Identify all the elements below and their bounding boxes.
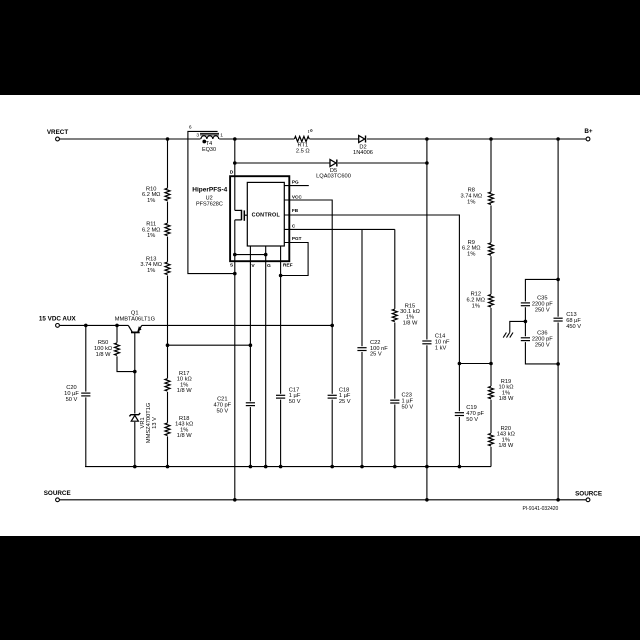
capacitor C18	[328, 394, 337, 396]
transformer T4 core bars	[200, 132, 219, 134]
op-amp U2 outer box	[230, 176, 289, 261]
svg-text:PFS7628C: PFS7628C	[196, 202, 223, 208]
resistor R15	[392, 309, 397, 321]
wire chassis ground stub	[510, 321, 526, 332]
junction dots	[166, 137, 170, 141]
svg-text:1/8 W: 1/8 W	[403, 320, 418, 326]
svg-text:50 V: 50 V	[216, 408, 228, 414]
wire R50 branch	[117, 325, 135, 371]
wire VRECT rail	[60, 138, 295, 140]
resistor R19	[489, 386, 494, 398]
svg-text:CONTROL: CONTROL	[252, 212, 281, 218]
svg-text:1/8 W: 1/8 W	[177, 388, 192, 394]
svg-text:U2: U2	[206, 195, 213, 201]
svg-text:1%: 1%	[467, 199, 475, 205]
svg-text:50 V: 50 V	[402, 405, 414, 411]
capacitor C23	[390, 399, 399, 401]
terminal 15 VDC AUX	[56, 324, 60, 328]
svg-text:EQ30: EQ30	[202, 147, 216, 153]
wire C22 vertical	[361, 229, 363, 466]
svg-text:450 V: 450 V	[566, 324, 581, 330]
wire C pin line	[284, 228, 395, 230]
capacitor C17	[276, 394, 285, 396]
wire V tap	[168, 344, 251, 346]
wire S-G internal tie	[235, 254, 266, 256]
resistor R10	[165, 188, 170, 201]
resistor R20	[489, 433, 494, 445]
svg-text:1/8 W: 1/8 W	[96, 352, 111, 358]
wire D5 branch from drain node	[235, 162, 330, 164]
wire G line	[265, 246, 267, 467]
terminal VRECT	[56, 137, 60, 141]
capacitor C19	[455, 412, 464, 414]
svg-text:G: G	[267, 263, 271, 269]
svg-text:1/8 W: 1/8 W	[177, 433, 192, 439]
wire V line / C21	[249, 246, 251, 467]
resistor R17	[165, 379, 170, 391]
wire mid return rail	[85, 466, 491, 468]
wire D5 cathode to B+ line	[338, 162, 427, 164]
resistor R9	[489, 243, 494, 256]
svg-text:VR1: VR1	[140, 417, 146, 428]
svg-text:D: D	[230, 170, 234, 176]
svg-text:250 V: 250 V	[535, 342, 550, 348]
capacitor C21	[246, 402, 255, 404]
wire R15-C23 vertical	[394, 229, 396, 466]
svg-text:1: 1	[220, 133, 223, 139]
wire FB pin line	[284, 215, 459, 364]
svg-text:25 V: 25 V	[339, 399, 351, 405]
svg-text:PGT: PGT	[292, 236, 302, 241]
wire C19 vertical	[458, 364, 460, 467]
svg-text:HiperPFS-4: HiperPFS-4	[192, 187, 227, 194]
svg-text:PG: PG	[292, 180, 299, 185]
transistor Q1	[128, 325, 132, 332]
svg-text:1%: 1%	[472, 303, 480, 309]
svg-text:VRECT: VRECT	[47, 129, 68, 136]
svg-text:REF: REF	[283, 263, 293, 269]
resistor R8	[489, 192, 494, 205]
svg-text:VCC: VCC	[292, 194, 303, 199]
svg-text:1 kV: 1 kV	[435, 345, 447, 351]
svg-text:6: 6	[189, 124, 192, 130]
U2 inner CONTROL box	[247, 182, 284, 246]
svg-text:1/8 W: 1/8 W	[498, 443, 513, 449]
svg-text:SOURCE: SOURCE	[575, 491, 602, 498]
wire C20 vertical	[85, 325, 87, 466]
svg-text:LQA03TC600: LQA03TC600	[316, 174, 351, 180]
svg-text:1N4006: 1N4006	[353, 150, 373, 156]
svg-text:FB: FB	[292, 208, 299, 213]
transformer T4 winding	[201, 136, 219, 139]
wire drain line D	[234, 139, 236, 210]
wire REF line / C17	[280, 246, 282, 467]
component cutouts	[201, 135, 220, 143]
svg-text:1%: 1%	[467, 252, 475, 258]
wire T4 pin6 down to S	[188, 131, 235, 273]
capacitor C14	[422, 340, 431, 342]
resistor R18	[165, 423, 170, 435]
wire B+ / C14 vertical	[426, 139, 428, 500]
svg-text:25 V: 25 V	[370, 352, 382, 358]
svg-text:1/8 W: 1/8 W	[499, 396, 514, 402]
svg-text:250 V: 250 V	[535, 307, 550, 313]
wire C13 vertical	[557, 139, 559, 500]
terminal B+	[586, 137, 590, 141]
capacitor C35	[521, 302, 530, 304]
svg-text:15 VDC AUX: 15 VDC AUX	[39, 316, 77, 323]
svg-text:B+: B+	[584, 128, 593, 135]
wire SOURCE rail	[60, 499, 586, 501]
mosfet inside U2	[235, 209, 242, 211]
svg-text:1%: 1%	[147, 198, 155, 204]
terminal SOURCE left	[56, 498, 60, 502]
svg-text:50 V: 50 V	[289, 399, 301, 405]
svg-text:MMBTA06LT1G: MMBTA06LT1G	[115, 316, 155, 322]
terminal SOURCE right	[586, 498, 590, 502]
wire R19-R20 vertical	[490, 364, 492, 467]
wire Q1 base to VR1 to mid rail	[134, 333, 136, 467]
transformer T4 phase dot	[202, 140, 206, 144]
wire rail RT1-D2	[309, 138, 358, 140]
svg-text:SOURCE: SOURCE	[44, 490, 71, 497]
capacitor C36	[521, 337, 530, 339]
wire PGT to REF loop	[281, 243, 309, 276]
svg-text:1%: 1%	[147, 268, 155, 274]
capacitor C20	[81, 392, 90, 394]
capacitor C22	[357, 347, 366, 349]
resistor R12	[489, 295, 494, 307]
chassis ground	[503, 333, 506, 338]
wire 15VDC AUX rail	[60, 324, 129, 326]
svg-text:1%: 1%	[147, 233, 155, 239]
svg-text:50 V: 50 V	[466, 417, 478, 423]
wire VCC pin line	[284, 200, 332, 467]
thermistor RT1	[294, 136, 309, 141]
svg-text:13 V: 13 V	[152, 417, 158, 429]
wire S line	[234, 220, 236, 500]
wire R10-R11-R13-R17-R18 chain	[167, 139, 169, 467]
wire rail D2 to B+	[367, 138, 586, 140]
svg-text:50 V: 50 V	[66, 397, 78, 403]
svg-text:2.5 Ω: 2.5 Ω	[296, 149, 310, 155]
zener diode VR1	[129, 413, 140, 416]
capacitor C13	[554, 317, 563, 319]
svg-text:MMSZ4700T1G: MMSZ4700T1G	[146, 403, 152, 443]
diode D5	[330, 160, 336, 167]
wire PG stub	[284, 185, 309, 187]
diode D2	[359, 136, 365, 143]
wire R8-R9-R12 chain vertical	[490, 139, 492, 364]
resistor R13	[165, 262, 170, 274]
svg-text:PI-9141-032420: PI-9141-032420	[522, 506, 558, 512]
wire FB node horizontal	[459, 363, 491, 365]
wire C35 top branch	[525, 279, 558, 364]
wire Q1 emitter to VCC line	[142, 324, 333, 326]
svg-text:3: 3	[196, 133, 199, 139]
resistor R11	[165, 223, 170, 236]
resistor R50	[115, 343, 120, 355]
